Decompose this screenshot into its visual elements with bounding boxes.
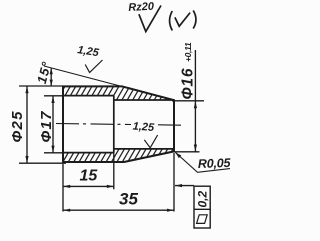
svg-text:0,2: 0,2 bbox=[196, 190, 210, 207]
centerline bbox=[56, 124, 181, 126]
svg-text:Ф25: Ф25 bbox=[9, 110, 26, 142]
svg-text:35: 35 bbox=[119, 190, 138, 209]
svg-text:1,25: 1,25 bbox=[77, 44, 101, 59]
dimension Ф25 line and arrows bbox=[25, 86, 28, 163]
roughness check mark main bbox=[139, 6, 161, 32]
dimension Ф16 line and arrows bbox=[194, 50, 197, 152]
extension line right face down bbox=[173, 153, 175, 212]
svg-text:15: 15 bbox=[80, 168, 99, 185]
angle 15 deg double arrow bbox=[50, 68, 53, 86]
bore Ф17 top line bbox=[63, 95, 114, 97]
flatness symbol parallelogram bbox=[197, 215, 208, 224]
leader R0,05 bbox=[175, 152, 230, 172]
bore step edge bbox=[113, 96, 115, 153]
hatch top wall bbox=[51, 86, 184, 102]
tolerance frame leader bbox=[175, 184, 194, 187]
extension line left face down bbox=[62, 164, 64, 212]
small check mark in parens bbox=[175, 13, 190, 27]
svg-text:Rz20: Rz20 bbox=[128, 1, 155, 14]
open paren bbox=[170, 11, 173, 30]
bore Ф16 top line bbox=[114, 99, 174, 101]
dimension Ф17 extension lines bbox=[44, 96, 63, 153]
svg-text:Ф16: Ф16 bbox=[180, 68, 197, 100]
check mark on bore surface bbox=[144, 135, 157, 148]
dimension 15 line and arrows bbox=[63, 185, 114, 188]
extension line step down bbox=[113, 153, 115, 190]
svg-text:1,25: 1,25 bbox=[132, 121, 155, 135]
check mark on taper extension bbox=[85, 60, 102, 73]
dimension Ф16 extension lines bbox=[172, 101, 204, 152]
bore Ф17 bottom line bbox=[63, 152, 114, 154]
dimension 35 line and arrows bbox=[63, 209, 174, 212]
svg-text:+0,11: +0,11 bbox=[183, 42, 193, 62]
close paren bbox=[193, 10, 196, 28]
dimension Ф25 extension lines bbox=[19, 86, 66, 163]
hatch bottom wall bbox=[52, 148, 185, 163]
taper extension line bbox=[44, 66, 123, 87]
tolerance frame bbox=[194, 186, 210, 228]
part outer contour bbox=[63, 86, 174, 162]
bore Ф16 bottom line bbox=[114, 148, 174, 150]
svg-text:R0,05: R0,05 bbox=[198, 156, 232, 171]
dimension Ф17 line and arrows bbox=[51, 96, 54, 153]
svg-text:Ф17: Ф17 bbox=[38, 110, 55, 142]
